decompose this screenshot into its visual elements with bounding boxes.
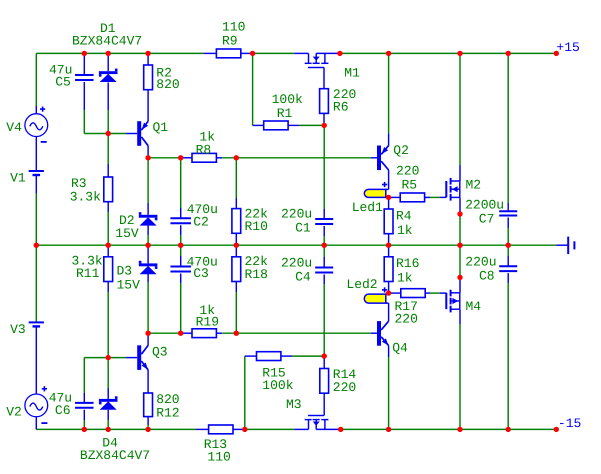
svg-text:M1: M1 [344, 66, 360, 81]
zener diode D3 [139, 245, 158, 274]
label D3 [117, 264, 133, 279]
wire D4 to bottom rail [107, 410, 109, 430]
svg-text:15V: 15V [117, 278, 141, 293]
node R12 bottom [145, 427, 150, 432]
label R17 value [395, 311, 418, 326]
label R10 [245, 219, 268, 234]
svg-text:V3: V3 [10, 322, 26, 337]
label Q4 [392, 341, 408, 356]
label R1 value [272, 92, 303, 107]
resistor R6 [320, 68, 329, 114]
svg-text:C4: C4 [295, 270, 311, 285]
label R2 value [156, 77, 179, 92]
label R12 [156, 406, 179, 421]
label C5 value [49, 63, 72, 78]
node LED2 top [386, 290, 391, 295]
label M2 [466, 177, 482, 192]
label R13 value [207, 449, 230, 464]
transistor Q2 [377, 146, 389, 171]
node C5 top [82, 51, 87, 56]
label C2 [193, 215, 209, 230]
node R10 mid [234, 243, 239, 248]
label R11 value [72, 254, 103, 269]
label R17 [395, 299, 418, 314]
label R5 value [396, 164, 419, 179]
label -15 [558, 416, 581, 431]
node C1 mid [322, 243, 327, 248]
wire M2 drain up [459, 53, 461, 181]
label C1 [295, 221, 311, 236]
wire R5 to M2 gate [425, 196, 447, 198]
svg-text:-15: -15 [558, 416, 581, 431]
node R3 mid [106, 243, 111, 248]
label R16 [396, 256, 419, 271]
wire D1 to node [107, 83, 109, 134]
svg-text:220: 220 [395, 311, 418, 326]
label C6 value [49, 391, 72, 406]
transistor Q4 [377, 321, 389, 346]
label C4 [295, 270, 311, 285]
capacitor C3 [170, 245, 191, 271]
wire C8 top lead [507, 245, 509, 266]
resistor R1 [264, 121, 288, 130]
label R9 value [222, 20, 245, 35]
node R9 right [250, 51, 255, 56]
label Led1 [352, 200, 383, 215]
svg-text:220u: 220u [281, 206, 312, 221]
label R15 value [262, 378, 293, 393]
resistor R3 [104, 134, 113, 202]
wire R8 to Q2 base [222, 157, 377, 159]
label C5 [55, 74, 71, 89]
svg-text:100k: 100k [272, 92, 303, 107]
wire R9 dot to R1 [253, 53, 264, 125]
wire C5 to Q1 base wire [84, 82, 108, 134]
node R13 right [242, 427, 247, 432]
mosfet M3 [294, 416, 328, 430]
wire Q3 emitter to R12 [147, 370, 149, 393]
wire M4 source down [459, 309, 461, 429]
label V4 [6, 120, 22, 135]
wire LED2 node to R17 [389, 292, 401, 294]
wire R10 to mid [235, 233, 237, 245]
wire R18 to R19 row [235, 282, 237, 334]
wire mid rail [36, 244, 556, 246]
label C1 value [281, 206, 312, 221]
capacitor C5 [75, 53, 94, 80]
node LED1 bottom [386, 195, 391, 200]
svg-text:V4: V4 [6, 120, 22, 135]
wire R14 to M3 [323, 393, 325, 415]
resistor R15 [257, 352, 281, 361]
label +15 [556, 40, 579, 55]
wire R4 to mid [388, 234, 390, 246]
svg-text:V1: V1 [10, 170, 26, 185]
node C8 bottom [506, 427, 511, 432]
wire Q3 node to R19 [148, 332, 192, 334]
resistor R12 [144, 393, 153, 417]
node R18 bottom [234, 331, 239, 336]
node +15 dot [554, 51, 559, 56]
zener diode D1 [99, 53, 118, 82]
svg-text:BZX84C4V7: BZX84C4V7 [80, 448, 150, 463]
svg-text:Led1: Led1 [352, 200, 383, 215]
resistor R18 [232, 245, 241, 281]
node R8 left [178, 155, 183, 160]
wire R1 to R6 node [288, 124, 324, 126]
label LED2 plus [382, 287, 387, 292]
svg-text:C7: C7 [479, 211, 495, 226]
label R12 value [156, 392, 179, 407]
label R1 [277, 106, 293, 121]
node R15-R14 junction [322, 353, 327, 358]
node Q3 collector [145, 331, 150, 336]
svg-text:Q1: Q1 [153, 120, 169, 135]
node M1 source [337, 51, 342, 56]
node R2 top [145, 51, 150, 56]
wire bottom rail R13 to M3 [245, 428, 295, 430]
node C2 mid [178, 243, 183, 248]
svg-text:R8: R8 [196, 142, 212, 157]
label R3 [71, 176, 87, 191]
label R6 [333, 100, 349, 115]
label R8 value [199, 130, 215, 145]
svg-text:R6: R6 [333, 100, 349, 115]
wire LED1 node to R5 [389, 196, 401, 198]
svg-text:220u: 220u [281, 256, 312, 271]
label R4 [396, 208, 412, 223]
mosfet M4 [446, 290, 460, 313]
wire R2 to Q1 [147, 90, 149, 122]
resistor R11 [104, 245, 113, 281]
resistor R19 [192, 329, 222, 338]
mosfet M2 [446, 178, 460, 201]
label C7 value [465, 198, 504, 213]
label R19 [196, 314, 219, 329]
svg-text:R10: R10 [245, 219, 268, 234]
label V2 minus [41, 422, 47, 424]
node D2 mid [145, 243, 150, 248]
wire Q2 emitter to LED1 [388, 170, 390, 189]
label D2 value [115, 226, 139, 241]
label R13 [204, 437, 227, 452]
svg-text:220: 220 [396, 164, 419, 179]
label V1 [10, 170, 26, 185]
wire R11 to Q3 wire [107, 282, 109, 358]
zener diode D4 [99, 358, 118, 410]
label C3 [193, 266, 209, 281]
wire C7 to mid [507, 218, 509, 246]
label V2 plus [42, 386, 47, 391]
wire Q3 collector lead [147, 333, 149, 345]
label M3 [286, 397, 302, 412]
wire C4 to R15 node [323, 275, 325, 357]
svg-text:100k: 100k [262, 378, 293, 393]
node M3 source [338, 427, 343, 432]
resistor R5 [400, 193, 424, 202]
wire center column R1 node to mid [323, 125, 325, 219]
wire D3 to Q3 [147, 274, 149, 333]
wire Q3 base wire [84, 357, 137, 359]
label R2 [156, 65, 172, 80]
transistor Q3 [137, 345, 148, 370]
node Q2 collector top [386, 51, 391, 56]
label Q1 [153, 120, 169, 135]
transistor Q1 [137, 121, 148, 146]
svg-text:C8: C8 [479, 268, 495, 283]
battery V1 [29, 171, 44, 175]
label R18 [245, 267, 268, 282]
label R3 value [70, 189, 101, 204]
svg-text:C6: C6 [55, 403, 71, 418]
node -15 dot [554, 427, 559, 432]
wire V3 to V2 [35, 327, 37, 395]
svg-text:110: 110 [222, 20, 245, 35]
wire Q1 node to R8 [148, 157, 192, 159]
node Q1 base junction [106, 131, 111, 136]
svg-text:C3: C3 [193, 266, 209, 281]
wire C2 to mid [180, 225, 182, 245]
node M2 drain rail [457, 51, 462, 56]
wire Q1 node down to D2 [147, 158, 149, 215]
capacitor C7 [499, 211, 517, 215]
label C6 [55, 403, 71, 418]
voltage source V2 [25, 394, 48, 417]
resistor R8 [192, 153, 222, 162]
svg-text:M4: M4 [466, 299, 482, 314]
wire C7 top lead [507, 53, 509, 211]
node R1-R6 junction [322, 123, 327, 128]
label R14 value [333, 380, 356, 395]
voltage source V4 [25, 114, 48, 137]
wire C3 to R19 row [180, 274, 182, 334]
svg-text:D3: D3 [117, 264, 133, 279]
label D1 type [72, 34, 142, 49]
wire Q4 emitter to bottom rail [388, 346, 390, 430]
resistor R17 [401, 289, 425, 298]
capacitor C2 [170, 158, 191, 224]
node Q1 collector [145, 155, 150, 160]
wire C6 top lead [83, 358, 85, 403]
label V2 [6, 405, 22, 420]
wire M4 drain to mid [459, 245, 461, 277]
label R19 value [199, 303, 215, 318]
svg-text:M3: M3 [286, 397, 302, 412]
label R10 value [245, 206, 269, 221]
node M4 drain [457, 275, 462, 280]
node C7 mid [506, 243, 511, 248]
node C3 bottom [178, 331, 183, 336]
led Led2 [364, 294, 388, 303]
label R14 [333, 367, 357, 382]
svg-text:R11: R11 [76, 266, 100, 281]
wire R12 to bottom rail [147, 417, 149, 430]
led Led1 [364, 189, 388, 197]
node R8 right [234, 155, 239, 160]
svg-text:BZX84C4V7: BZX84C4V7 [72, 34, 142, 49]
wire C8 to bottom [507, 273, 509, 429]
wire V2 to bottom rail [35, 417, 37, 430]
wire top rail M1 to +15 [316, 52, 556, 54]
svg-text:R9: R9 [222, 34, 238, 49]
label V4 plus [40, 107, 45, 112]
wire mid rail to V3 [35, 245, 37, 322]
svg-text:Q2: Q2 [393, 143, 409, 158]
svg-text:R1: R1 [277, 106, 293, 121]
wire Q2 collector [388, 53, 390, 145]
node M2 mid [457, 243, 462, 248]
svg-text:C5: C5 [55, 74, 71, 89]
node mid-left junction [34, 243, 39, 248]
label Q2 [393, 143, 409, 158]
wire C1 to mid [323, 226, 325, 245]
svg-text:R5: R5 [402, 177, 418, 192]
label D2 [119, 213, 135, 228]
label R9 [222, 34, 238, 49]
node D1 top [106, 51, 111, 56]
svg-text:M2: M2 [466, 177, 482, 192]
wire Q1 collector to node [147, 146, 149, 158]
resistor R10 [232, 158, 241, 234]
node C6 bottom [82, 427, 87, 432]
wire D2 to mid [147, 225, 149, 245]
wire M2 source to mid [459, 214, 461, 245]
resistor R13 [196, 425, 245, 434]
node R4 mid [386, 243, 391, 248]
wire V4 top lead [35, 53, 37, 113]
ground symbol [568, 237, 574, 255]
node M4 source bottom [457, 427, 462, 432]
label Q3 [152, 345, 168, 360]
resistor R9 [204, 49, 253, 58]
wire R17 to M4 gate [425, 292, 446, 294]
wire V4 to V1 [35, 136, 37, 171]
label V4 minus [41, 141, 47, 143]
node Q4 emitter bottom [386, 427, 391, 432]
svg-text:Led2: Led2 [346, 277, 377, 292]
svg-text:R12: R12 [156, 406, 179, 421]
wire LED2 to Q4 [388, 303, 390, 321]
node D4 bottom [106, 427, 111, 432]
wire M4 drain up [459, 277, 461, 292]
label R6 value [333, 87, 356, 102]
wire V1 to mid rail [35, 175, 37, 245]
svg-text:820: 820 [156, 77, 179, 92]
svg-text:R16: R16 [396, 256, 419, 271]
wire bottom rail M3 to -15 [316, 428, 556, 430]
capacitor C6 [75, 403, 94, 408]
label R16 value [397, 270, 413, 285]
wire C6 to bottom rail [83, 410, 85, 430]
wire bottom rail left [36, 428, 196, 430]
label R15 [262, 366, 285, 381]
capacitor C4 [315, 245, 333, 272]
label C2 value [187, 202, 218, 217]
capacitor C8 [499, 266, 517, 271]
label C4 value [281, 256, 312, 271]
label Led2 [346, 277, 377, 292]
wire R15 to R14 node [281, 355, 324, 357]
svg-text:220: 220 [333, 380, 356, 395]
svg-text:R18: R18 [245, 267, 268, 282]
svg-text:3.3k: 3.3k [70, 189, 101, 204]
node M2 source [457, 211, 462, 216]
svg-text:R19: R19 [196, 314, 219, 329]
label D3 value [117, 278, 141, 293]
mosfet M1 [294, 53, 328, 67]
resistor R2 [144, 53, 153, 89]
capacitor C1 [315, 219, 333, 224]
label D4 [102, 436, 118, 451]
battery V3 [29, 322, 44, 326]
label D4 type [80, 448, 150, 463]
label R18 value [245, 254, 269, 269]
label R11 [76, 266, 100, 281]
wire R6 to R1 node [323, 113, 325, 125]
resistor R4 [384, 197, 393, 233]
label C8 value [465, 255, 496, 270]
svg-text:15V: 15V [115, 226, 139, 241]
svg-text:R4: R4 [396, 208, 412, 223]
label R8 [196, 142, 212, 157]
node C7 top [506, 51, 511, 56]
svg-text:Q3: Q3 [152, 345, 168, 360]
label M4 [466, 299, 482, 314]
node Q3 base junction [106, 355, 111, 360]
wire ground lead [556, 244, 567, 246]
wire R3 to mid rail [107, 202, 109, 246]
label R4 value [397, 223, 413, 238]
svg-text:+15: +15 [556, 40, 579, 55]
label LED1 plus [382, 182, 387, 187]
wire node to Q1 base [108, 133, 137, 135]
resistor R16 [384, 245, 393, 281]
label C3 value [187, 254, 218, 269]
svg-text:1k: 1k [397, 270, 413, 285]
zener diode D2 [139, 212, 158, 225]
wire M2 source down [459, 197, 461, 214]
svg-text:C1: C1 [295, 221, 311, 236]
svg-text:110: 110 [207, 449, 230, 464]
label V3 [10, 322, 26, 337]
svg-text:C2: C2 [193, 215, 209, 230]
svg-text:Q4: Q4 [392, 341, 408, 356]
resistor R14 [320, 356, 329, 393]
label D1 [100, 21, 116, 36]
label C8 [479, 268, 495, 283]
wire R19 to Q4 base [222, 332, 377, 334]
svg-text:V2: V2 [6, 405, 22, 420]
label M1 [344, 66, 360, 81]
wire R16 to LED2 node [388, 282, 390, 294]
svg-text:1k: 1k [397, 223, 413, 238]
label C7 [479, 211, 495, 226]
wire top rail left segment [36, 52, 203, 54]
wire R13 dot to R15 [245, 356, 257, 429]
label R5 [402, 177, 418, 192]
wire top rail R9 to M1 [253, 52, 295, 54]
